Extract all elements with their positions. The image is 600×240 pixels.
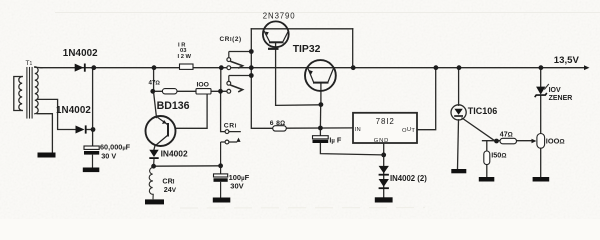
resistor R1 0.3 ohm 12W [180,64,194,69]
svg-text:30V: 30V [230,181,243,190]
diode IN4002 (a) at 7812 GND [379,166,389,176]
wire 47-ohm/100-ohm resistor line [154,90,227,92]
svg-text:2N3790: 2N3790 [263,12,296,21]
resistor 47 ohm (gate) [500,138,517,144]
resistor 47 ohm (BD136 emitter) [162,89,177,94]
svg-text:47Ω: 47Ω [149,80,161,87]
svg-text:60,000µF: 60,000µF [100,143,131,152]
node relay contact upper wire [249,49,254,54]
node TIC106 anode on rail [457,65,462,70]
node junction dots [91,49,544,169]
node 7812 OUT on rail [434,65,439,70]
transistor Q3 TIP32 [305,60,336,91]
wire BD136 collector lead [154,146,155,150]
ground (100 ohm) [533,177,550,182]
transformer T1 primary winding [14,77,22,111]
capacitor C1 60000uF [84,146,99,168]
transistor Q2 2N3790 [263,21,289,48]
relay contacts CR1(2) upper [227,52,251,70]
node 1uF bottom at GND leg [381,153,386,158]
capacitor 1uF [313,136,329,143]
wire rectified node vertical (rail to filter cap) [92,68,94,146]
regulator U1 7812 [353,113,417,143]
wire TIC106 anode from rail [458,68,460,106]
relay contacts CR1(2) lower [227,76,251,94]
resistor 150 ohm [484,151,490,165]
transformer T1 core [27,68,32,119]
ground (transformer center tap) [38,153,56,158]
wire secondary bottom to ground [37,114,52,153]
svg-text:13,5V: 13,5V [554,55,580,66]
wire CR1 contact to 100uF cap vertical [220,91,222,131]
resistor 100 ohm (zener divider) [537,134,545,149]
scan artifact top line [55,12,600,14]
wire 2N3790 chord line [251,28,352,30]
node D2 to filter vertical [91,127,96,132]
scan artifact bottom smudge [180,207,425,210]
svg-text:ZENER: ZENER [549,95,573,102]
svg-text:I50Ω: I50Ω [491,151,506,160]
wire secondary top to rail [35,66,42,68]
wire rail drop to 47-ohm line [153,68,155,92]
wire 2N3790 collector drop to rail [352,29,354,68]
node 100-ohm right [218,89,223,94]
wire BD136 base line [176,92,207,129]
node TIP32 base [319,102,324,107]
svg-text:24V: 24V [164,185,177,194]
ground (TIC106 cathode) [451,169,466,173]
node 2N3790 collector on rail [351,65,356,70]
capacitor 100uF 30V [214,166,228,198]
svg-text:30 V: 30 V [101,152,116,161]
diode IN4002 (b) at 7812 GND [379,179,389,189]
wire relay common vertical [251,29,272,129]
svg-text:CRI: CRI [224,122,237,129]
wire BD136 collector node to relay cap node [154,165,221,167]
svg-text:GND: GND [374,138,389,144]
svg-text:47Ω: 47Ω [500,132,513,139]
resistor 100 ohm (BD136 base) [196,89,211,94]
zener diode 10V [535,84,549,97]
node 100uF top [218,163,223,168]
node relay common on rail [249,65,254,70]
svg-text:IN4002 (2): IN4002 (2) [390,174,427,183]
wire TIP32 base lead [320,83,322,105]
wire 7812 GND leg down [383,143,385,198]
thyristor U2 TIC106 [451,105,466,120]
ground (100uF cap) [213,198,231,203]
wire 7812 OUT up to rail [417,68,436,130]
wire 2N3790 base lead down and right [276,43,321,105]
wire base node down to 6.8-ohm line [319,105,321,128]
diode 1N4002 D2 [76,125,87,133]
svg-text:IOOΩ: IOOΩ [546,137,566,146]
wire gate node line [483,140,501,142]
wire 150-ohm bottom lead [486,165,488,177]
node relay drop on rail [219,65,224,70]
svg-text:Iµ F: Iµ F [329,136,342,145]
svg-text:I 2 W: I 2 W [178,54,192,60]
svg-text:OUT: OUT [402,127,415,134]
svg-text:BD136: BD136 [157,100,190,112]
diode 1N4002 D1 [75,64,86,72]
diode IN4002 (BD136 collector) [149,150,158,166]
wire TIC106 cathode to ground [458,120,459,169]
node 47-ohm feed on rail [152,65,157,70]
ground (relay coil CR1) [145,199,164,204]
wire BD136 emitter lead [154,92,157,118]
node BD136 collector / coil [151,164,156,169]
node TIC106 gate [494,139,499,144]
wire 100-ohm bottom lead [540,148,542,177]
wire 1uF cap bottom to 7812 GND leg [320,143,383,155]
ground (60000uF cap) [83,168,100,173]
svg-text:TIC106: TIC106 [468,106,498,116]
wire top rail [40,67,584,69]
wire 6.8-ohm to 7812 IN [286,127,353,129]
resistor 6.8 ohm [273,126,287,131]
svg-text:IOV: IOV [549,87,561,94]
node rectifier output on rail [91,65,96,70]
svg-text:6 8Ω: 6 8Ω [270,120,286,127]
wire diode D2 output to node [87,129,93,131]
relay coil CR1 24V [149,167,154,199]
wire 150-ohm top lead [486,141,488,151]
svg-text:IOO: IOO [197,82,209,89]
ground (7812 GND diodes) [375,197,393,202]
svg-text:1N4002: 1N4002 [63,48,98,59]
svg-text:T1: T1 [26,60,33,67]
wire zener to 100-ohm [540,96,542,134]
svg-text:78I2: 78I2 [376,117,395,126]
wire zener chain vertical [540,68,542,87]
svg-text:1N4002: 1N4002 [56,105,91,116]
svg-text:IN: IN [355,127,362,133]
svg-text:TIP32: TIP32 [293,44,321,55]
relay contact CR1 (series with 100uF) [221,130,241,166]
ground (150 ohm) [479,177,495,182]
wire relay line drop (rail to resistor line) [220,68,222,92]
wire 1uF cap top lead [319,128,321,136]
svg-text:CRI(2): CRI(2) [220,36,242,43]
wire 47-ohm gate resistor to 100-ohm with arrow [517,140,533,142]
wire TIC106 gate diagonal [462,118,495,141]
transistor Q1 BD136 [146,116,176,146]
wire secondary center tap to diode D2 [37,99,76,129]
transformer T1 secondary winding [35,67,38,114]
node zener on rail [539,65,544,70]
node relay contact lower wire [249,73,254,78]
node 47-ohm left [150,89,155,94]
svg-text:IN4002: IN4002 [161,149,188,159]
wire rail end arrow [584,65,590,70]
node 6.8-ohm / 1uF / 7812 IN [318,126,323,131]
